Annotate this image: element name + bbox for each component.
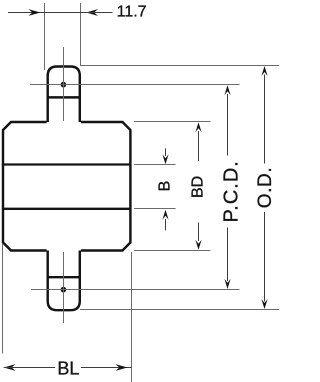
B dimension upper shaft — [165, 148, 167, 156]
BD lower arrowhead pointing down — [195, 240, 201, 250]
sprocket body octagon outline right part — [81, 122, 130, 251]
O.D. dimension lower shaft — [264, 212, 266, 302]
BD upper arrowhead pointing up — [195, 122, 201, 132]
top tooth outline — [48, 67, 80, 123]
svg-text:BL: BL — [57, 359, 79, 379]
bottom tooth root line — [47, 276, 81, 278]
BL right arrowhead pointing right — [115, 364, 127, 371]
O.D. upper arrowhead pointing up — [261, 66, 267, 76]
bottom tooth horizontal centerline / P.C.D. bottom extension — [31, 289, 240, 291]
svg-text:11.7: 11.7 — [117, 4, 147, 21]
top tooth horizontal centerline / P.C.D. top extension — [30, 84, 240, 86]
BD bottom extension line — [134, 250, 211, 252]
BL right extension line — [131, 252, 133, 382]
11.7 right extension line — [80, 3, 82, 66]
O.D. top extension line — [80, 65, 279, 67]
BL dimension line left shaft — [4, 367, 55, 369]
O.D. bottom extension line — [80, 309, 279, 311]
B upper arrowhead pointing down — [162, 154, 168, 164]
P.C.D. dimension upper shaft — [227, 94, 229, 156]
svg-text:P.C.D.: P.C.D. — [221, 160, 243, 222]
B top extension line — [134, 164, 176, 166]
bottom tooth outline — [48, 251, 80, 311]
BL dimension line right shaft — [81, 367, 132, 369]
P.C.D. dimension lower shaft — [227, 228, 229, 282]
O.D. dimension upper shaft — [264, 75, 266, 164]
P.C.D. lower arrowhead pointing down — [224, 279, 230, 289]
BL left extension line — [2, 244, 4, 354]
BD dimension upper shaft — [198, 131, 200, 161]
O.D. lower arrowhead pointing down — [261, 299, 267, 309]
11.7 dimension line left shaft — [8, 12, 45, 14]
BD top extension line — [134, 121, 211, 123]
top pitch point dot — [61, 82, 67, 88]
bottom tooth vertical centerline — [63, 252, 65, 323]
bore line lower — [2, 208, 132, 210]
sprocket body octagon outline left part — [3, 122, 47, 251]
11.7 left extension line — [44, 3, 46, 70]
B dimension lower shaft — [165, 219, 167, 230]
B lower arrowhead pointing up — [162, 210, 168, 220]
bottom pitch point dot — [61, 287, 67, 293]
11.7 left arrowhead pointing right — [28, 9, 40, 16]
top tooth vertical centerline — [63, 47, 65, 121]
11.7 right arrowhead pointing left — [86, 9, 98, 16]
11.7 dimension line middle segment — [45, 12, 81, 14]
BL left arrowhead pointing left — [4, 364, 16, 371]
P.C.D. upper arrowhead pointing up — [224, 85, 230, 95]
B bottom extension line — [134, 208, 176, 210]
top tooth root line — [47, 96, 81, 98]
bore line upper — [2, 163, 132, 165]
BD dimension lower shaft — [198, 223, 200, 242]
svg-text:B: B — [156, 181, 173, 192]
11.7 dimension line right shaft — [81, 12, 113, 14]
svg-text:O.D.: O.D. — [255, 167, 276, 208]
svg-text:BD: BD — [190, 176, 207, 198]
